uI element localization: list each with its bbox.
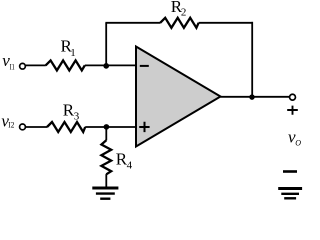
output terminal v_O — [290, 94, 296, 100]
node at inverting input junction — [103, 63, 109, 69]
output port plus sign — [287, 106, 298, 115]
op-amp U1 body — [136, 47, 221, 147]
wire from non-inverting node down to R4 — [105, 127, 107, 140]
resistor R3 — [47, 122, 85, 132]
op-amp inverting input marker (minus) — [140, 65, 149, 67]
svg-text:O: O — [295, 139, 301, 148]
wire top feedback right segment — [199, 22, 253, 24]
wire from v_I1 terminal to R1 — [26, 64, 46, 66]
svg-text:1: 1 — [70, 47, 76, 59]
wire vertical from feedback down to output node — [251, 22, 253, 97]
wire from v_I2 terminal to R3 — [26, 126, 47, 128]
svg-text:I2: I2 — [8, 121, 14, 130]
wire from op-amp output to output terminal — [221, 96, 290, 98]
node at non-inverting input junction — [104, 124, 110, 130]
ground (below R4) — [92, 188, 118, 199]
input terminal v_I1 — [20, 63, 26, 69]
resistor R2 — [160, 18, 198, 28]
op-amp non-inverting input marker (plus) — [139, 122, 149, 132]
ground (output reference) — [278, 189, 302, 199]
wire top feedback left segment — [105, 22, 160, 24]
input terminal v_I2 — [20, 124, 26, 130]
node at output junction — [249, 94, 255, 100]
svg-text:I1: I1 — [10, 62, 15, 71]
resistor R1 — [46, 60, 85, 70]
wire vertical from inverting node up to feedback path — [105, 23, 107, 66]
svg-text:3: 3 — [74, 110, 80, 122]
wire from R1 to inverting input of op-amp — [85, 64, 136, 66]
wire from R4 to ground — [105, 174, 107, 187]
resistor R4 — [101, 140, 111, 174]
wire from R3 to non-inverting input of op-amp — [85, 126, 136, 128]
svg-text:4: 4 — [127, 159, 133, 171]
output port minus sign — [283, 170, 297, 173]
svg-text:2: 2 — [181, 7, 187, 19]
